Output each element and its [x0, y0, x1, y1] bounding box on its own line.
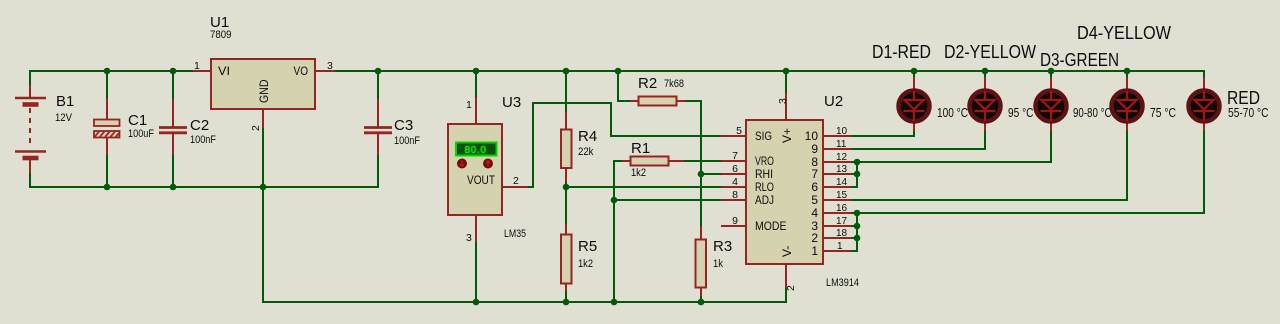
- svg-text:7: 7: [732, 150, 738, 162]
- svg-text:14: 14: [836, 177, 848, 188]
- wire: pin10 L10 to LED D1 cathode: [850, 130, 914, 137]
- wire: R1 right lead to VRO: [683, 160, 722, 162]
- svg-text:2: 2: [811, 231, 818, 245]
- svg-text:6: 6: [732, 163, 738, 175]
- svg-text:R1: R1: [631, 140, 650, 157]
- svg-text:18: 18: [836, 228, 848, 239]
- svg-text:3: 3: [466, 232, 472, 244]
- LED D5 (red): [1189, 88, 1269, 122]
- U3 up button: [483, 159, 493, 169]
- wire: LED anode and cathode red stubs: [914, 77, 1204, 131]
- svg-text:4: 4: [811, 206, 818, 220]
- svg-text:95 °C: 95 °C: [1008, 106, 1034, 120]
- svg-text:3: 3: [327, 60, 333, 72]
- wire: C3 bottom lead: [377, 154, 379, 188]
- wire: U3 pin1 stub: [475, 97, 477, 124]
- svg-text:7k68: 7k68: [664, 78, 684, 90]
- wire: R3 bottom lead: [700, 295, 702, 303]
- wire: LM3914 ADJ pin8 stub: [721, 199, 746, 201]
- svg-text:10: 10: [836, 126, 848, 137]
- wire: U3 pin3 stub: [475, 215, 477, 242]
- wire: LED D1 anode to rail: [913, 70, 915, 78]
- svg-text:100nF: 100nF: [190, 134, 216, 146]
- U3 down button: [457, 159, 467, 169]
- svg-text:2: 2: [513, 175, 519, 187]
- svg-text:V+: V+: [780, 128, 794, 143]
- svg-text:C2: C2: [190, 117, 209, 134]
- wire: C3 red leads: [377, 99, 379, 155]
- svg-text:3: 3: [777, 98, 789, 104]
- svg-text:ADJ: ADJ: [755, 193, 774, 207]
- wire: R1 left lead vertical to ground: [614, 160, 623, 302]
- svg-text:RED: RED: [1227, 88, 1260, 108]
- wire: LED D3 anode to rail: [1050, 70, 1052, 78]
- wire: LED D4 anode to rail: [1126, 70, 1128, 78]
- svg-text:11: 11: [836, 139, 847, 150]
- resistor R5: [561, 235, 597, 284]
- svg-text:R2: R2: [638, 75, 657, 92]
- node: ADJ junction: [611, 197, 618, 204]
- wire: main bottom ground rail: [262, 301, 786, 303]
- WIRES (green): [29, 70, 1204, 303]
- svg-text:C1: C1: [128, 112, 147, 129]
- wire: R3 leads: [700, 226, 702, 296]
- wire: V+ 12V top-left rail battery to U1 VI: [30, 70, 194, 72]
- PIN STUBS / LEADS (dark red): [30, 71, 1204, 296]
- svg-text:75 °C: 75 °C: [1150, 106, 1176, 120]
- wire: pin1 L1 stub wire: [850, 250, 858, 252]
- svg-text:22k: 22k: [578, 146, 594, 158]
- wire: R5 leads: [565, 224, 567, 291]
- wire: R2 right lead elbow down: [684, 100, 701, 227]
- svg-text:100 °C: 100 °C: [937, 106, 968, 120]
- svg-text:GND: GND: [257, 79, 271, 103]
- resistor R1: [631, 140, 669, 179]
- wire: C3 top lead: [377, 70, 379, 100]
- wire: R1 leads: [622, 160, 684, 162]
- svg-text:D2-YELLOW: D2-YELLOW: [944, 42, 1036, 62]
- wire: ADJ net: [614, 199, 722, 201]
- node: lower-left rail junctions: [104, 184, 111, 191]
- resistor R3: [696, 238, 733, 288]
- svg-text:7809: 7809: [210, 29, 232, 41]
- svg-text:15: 15: [836, 190, 848, 201]
- svg-text:90-80 °C: 90-80 °C: [1073, 106, 1112, 120]
- wire: R4 top lead to rail: [565, 70, 567, 113]
- U2 pin names SIG VRO RHI RLO ADJ MODE V+ V-: [755, 128, 794, 257]
- wire: C2 top lead: [172, 70, 174, 100]
- wire: U1 GND vertical down to ground rail: [262, 127, 264, 302]
- U3 LCD display 80.0: [456, 143, 497, 156]
- wire: LM3914 RLO pin4 stub: [721, 186, 746, 188]
- wire: tie vertical pins 16-17-18-1: [856, 212, 858, 252]
- svg-text:1: 1: [466, 99, 472, 111]
- wire: R2 leads: [630, 100, 685, 102]
- capacitor C2: [159, 117, 216, 146]
- svg-text:U3: U3: [502, 94, 521, 111]
- wire: U1 GND pin stub: [262, 109, 264, 128]
- svg-text:100nF: 100nF: [394, 135, 420, 147]
- wire: pin11 L9 to LED D2 cathode: [850, 130, 985, 150]
- svg-text:V-: V-: [780, 246, 794, 257]
- LED D3 (green): [1036, 50, 1120, 122]
- wire: C2 red leads: [172, 99, 174, 155]
- svg-text:U2: U2: [824, 93, 843, 110]
- wire: U3 pin1 to top rail: [475, 70, 477, 98]
- wire: battery B1 bottom lead: [29, 172, 31, 188]
- U2 internal output names 10..1: [805, 129, 819, 258]
- LED D4 (yellow): [1077, 23, 1176, 122]
- wire: U1 VI pin stub: [193, 70, 211, 72]
- node: top rail junctions: [104, 68, 111, 75]
- svg-text:C3: C3: [394, 117, 413, 134]
- wire: pin17 L3 stub wire: [850, 225, 857, 227]
- svg-text:B1: B1: [56, 93, 74, 110]
- U2 right pin numbers 10..18 1: [836, 126, 848, 252]
- wire: LM3914 V+ to top rail: [785, 70, 787, 94]
- svg-text:5: 5: [811, 193, 818, 207]
- svg-text:1: 1: [837, 241, 843, 252]
- wire: C1 red leads: [106, 98, 108, 155]
- regulator U1 7809: [194, 14, 333, 131]
- svg-text:R4: R4: [578, 128, 597, 145]
- svg-text:D1-RED: D1-RED: [872, 42, 931, 62]
- wire: R4 bottom to junction: [565, 181, 567, 188]
- svg-text:1: 1: [194, 60, 200, 72]
- wire: tie vertical pins 12-13-14: [856, 161, 858, 188]
- wire: LED D5 anode drop from rail corner: [1203, 70, 1205, 78]
- svg-text:4: 4: [732, 176, 738, 188]
- node: RHI junction: [698, 171, 705, 178]
- svg-text:LM35: LM35: [504, 228, 526, 240]
- svg-text:VI: VI: [218, 64, 230, 78]
- node: R4/R5/RLO junction: [563, 184, 570, 191]
- resistor R4: [561, 128, 597, 168]
- svg-text:13: 13: [836, 164, 848, 175]
- wire: LM3914 V- pin2 stub: [785, 264, 787, 288]
- wire: R4 leads: [565, 112, 567, 182]
- svg-text:VO: VO: [294, 64, 309, 78]
- svg-text:8: 8: [732, 189, 738, 201]
- wire: RLO net to LM3914 pin4: [566, 186, 722, 188]
- wire: pin18 L2 stub wire: [850, 237, 857, 239]
- svg-text:12: 12: [836, 152, 848, 163]
- svg-text:55-70 °C: 55-70 °C: [1228, 106, 1269, 120]
- wire: R2 left lead elbow to top rail: [618, 70, 631, 101]
- wire: RHI stub wire: [701, 173, 722, 175]
- svg-text:SIG: SIG: [755, 129, 772, 143]
- svg-text:17: 17: [836, 216, 848, 227]
- wire: LED D2 anode to rail: [984, 70, 986, 78]
- battery B1: [15, 93, 74, 158]
- wire: C1 bottom lead: [106, 154, 108, 188]
- svg-text:5: 5: [736, 125, 742, 137]
- capacitor C1: [94, 112, 154, 140]
- node: LED output tie junctions: [854, 159, 861, 166]
- svg-text:VRO: VRO: [755, 154, 774, 168]
- svg-text:2: 2: [250, 125, 262, 131]
- wire: LM3914 RHI pin6 stub: [721, 173, 746, 175]
- resistor R2: [638, 75, 684, 106]
- svg-text:7: 7: [811, 167, 818, 181]
- wire: battery top red lead: [29, 85, 31, 97]
- svg-text:RLO: RLO: [755, 180, 774, 194]
- IC U2 LM3914: [732, 93, 859, 291]
- svg-text:1k2: 1k2: [578, 258, 593, 270]
- svg-text:R3: R3: [713, 238, 732, 255]
- wire: LM3914 right pin stubs 10,11,12,13,14,15,16,17,18,1: [823, 136, 851, 251]
- wire: battery bottom red lead: [29, 160, 31, 173]
- wire: U3 pin3 to ground rail: [475, 241, 477, 303]
- wire: pin14 L6 stub wire: [850, 186, 858, 188]
- sensor U3 LM35: [448, 94, 526, 244]
- wire: LM3914 MODE pin9 stub: [721, 225, 746, 227]
- wire: LM3914 V+ pin3 stub: [785, 93, 787, 120]
- wire: U1 VO pin stub: [315, 70, 335, 72]
- svg-text:MODE: MODE: [755, 219, 787, 233]
- LED D1 (red): [872, 42, 968, 122]
- svg-text:1: 1: [811, 244, 818, 258]
- svg-text:D3-GREEN: D3-GREEN: [1040, 50, 1119, 70]
- svg-text:1k: 1k: [713, 258, 723, 270]
- wire: pin16 L4 to LED D5 cathode: [850, 130, 1204, 214]
- wire: bottom-left ground rail: [29, 186, 378, 188]
- wire: pin15 L5 to LED D4 cathode: [850, 130, 1127, 201]
- svg-text:6: 6: [811, 180, 818, 194]
- svg-text:9: 9: [732, 215, 738, 227]
- wire: R5 bottom lead: [565, 290, 567, 303]
- wire: LM3914 SIG pin5 stub: [721, 135, 746, 137]
- svg-text:RHI: RHI: [755, 167, 773, 181]
- wire: battery B1 top lead: [29, 70, 31, 86]
- wire: VOUT net U3 pin2 to LM3914 SIG: [527, 103, 722, 187]
- svg-text:16: 16: [836, 203, 848, 214]
- LED D2 (yellow): [944, 42, 1036, 122]
- wire: LM3914 V- to ground rail: [785, 287, 787, 303]
- svg-text:D4-YELLOW: D4-YELLOW: [1077, 23, 1171, 43]
- wire: pin13 L7 stub wire: [850, 173, 857, 175]
- svg-text:12V: 12V: [55, 112, 73, 124]
- svg-text:R5: R5: [578, 238, 597, 255]
- wire: 9V VO top rail: [334, 70, 1204, 72]
- wire: U3 pin2 VOUT stub: [502, 186, 528, 188]
- wire: R5 top lead: [565, 187, 567, 225]
- svg-text:10: 10: [805, 129, 819, 143]
- wire: pin12 L8 to LED D3 cathode: [850, 130, 1051, 163]
- wire: C2 bottom lead: [172, 154, 174, 188]
- svg-text:9: 9: [811, 142, 818, 156]
- svg-text:80.0: 80.0: [465, 145, 487, 156]
- wire: LM3914 VRO pin7 stub: [721, 160, 746, 162]
- svg-text:LM3914: LM3914: [826, 277, 859, 289]
- svg-text:1k2: 1k2: [631, 167, 646, 179]
- capacitor C3: [364, 117, 420, 147]
- node: ground rail junctions: [473, 299, 480, 306]
- svg-text:VOUT: VOUT: [467, 173, 496, 187]
- svg-text:100uF: 100uF: [128, 128, 154, 140]
- wire: C1 top lead: [106, 70, 108, 99]
- svg-text:2: 2: [785, 285, 797, 291]
- U2 left pin numbers 5 7 6 4 8 9: [732, 125, 742, 227]
